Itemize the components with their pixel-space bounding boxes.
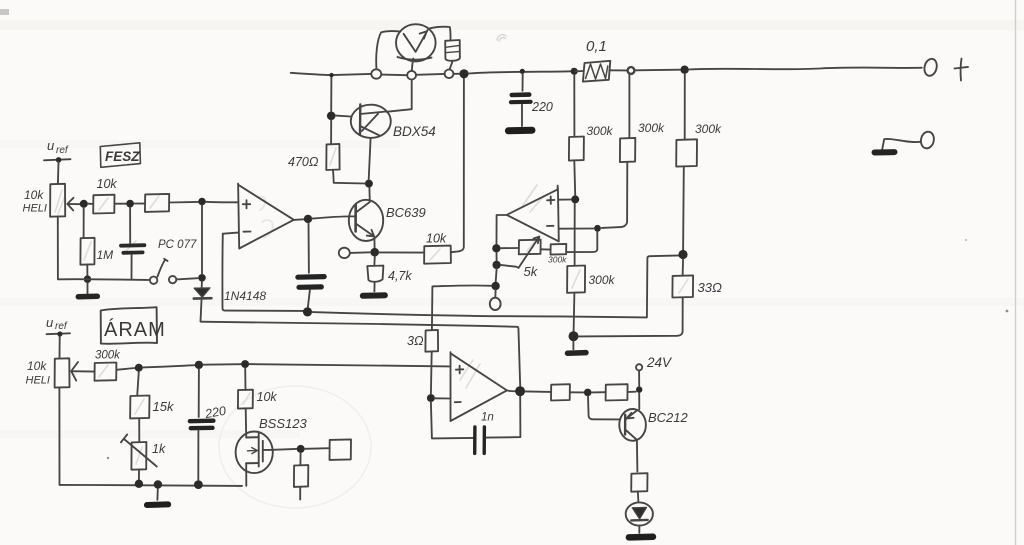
node ground mid <box>569 331 579 341</box>
wire U3 out to R17 <box>525 390 551 393</box>
wire U_ref to pot R1 <box>57 162 60 184</box>
node Q3 emitter <box>370 248 379 257</box>
wire P1 to top transistor <box>376 31 400 69</box>
transistor Q1 (top) body <box>396 24 436 61</box>
wire down to 300k (4th) <box>574 203 576 265</box>
wire R9 to op-amp U2 plus node <box>573 160 576 195</box>
terminal plus output <box>923 58 939 78</box>
faint pencil smudge around BSS123 <box>219 386 371 508</box>
node U2 minus <box>594 225 601 232</box>
box J1 <box>330 439 352 460</box>
connector circle P1 <box>371 69 381 78</box>
tag box FESZ <box>100 143 140 168</box>
rail left segment with small node <box>291 73 371 75</box>
resistor R19 <box>631 473 647 492</box>
resistor R7 10k sense <box>424 246 451 264</box>
wire node470 to Q2 base <box>336 115 351 118</box>
op-amp U3 <box>451 352 507 421</box>
resistor R21 300k bottom <box>95 363 117 381</box>
wire R2 to node B1 <box>115 203 126 205</box>
svg-text:PC 077: PC 077 <box>158 239 197 251</box>
label BC639 <box>386 205 426 220</box>
wire output node down to C2 <box>308 223 310 273</box>
connector node open <box>628 67 635 74</box>
open terminal at Q3 emitter <box>339 248 350 258</box>
node rail main <box>459 69 468 78</box>
svg-text:BSS123: BSS123 <box>259 416 307 431</box>
node 33R top <box>678 250 687 259</box>
node U2 out to 5k top <box>492 244 500 252</box>
svg-text:FESZ: FESZ <box>105 149 140 164</box>
svg-text:300k: 300k <box>548 255 567 265</box>
wire switch to node D1 <box>176 278 197 279</box>
wire R6 bottom to Q3 collector node <box>333 170 365 184</box>
resistor R24 10k gate <box>244 368 246 390</box>
terminal 2 with ground <box>919 130 935 149</box>
svg-text:300k: 300k <box>587 124 614 138</box>
switch PC077 contact circles <box>150 277 157 284</box>
node to 5k wiper <box>496 253 498 261</box>
wire node C1 down to switch node <box>201 205 203 274</box>
ground G3 <box>156 489 158 500</box>
node C3 top <box>520 69 525 74</box>
bottom rail <box>58 388 60 485</box>
node U3 minus <box>427 394 435 402</box>
node output U1 <box>304 215 312 223</box>
svg-text:15k: 15k <box>153 399 175 414</box>
tag box ARAM <box>101 307 157 344</box>
wire node base drive down right to Q5 base <box>588 396 619 419</box>
wire Q5 collector down <box>636 441 639 472</box>
ground G1 <box>87 283 89 294</box>
potentiometer R20 10k HELI bottom <box>55 358 70 387</box>
resistor R8 4.7k <box>373 257 376 266</box>
svg-text:1n: 1n <box>481 412 494 424</box>
feedback wire U1 <box>222 234 303 311</box>
switch lever <box>158 259 168 277</box>
node 470R top <box>327 112 336 121</box>
wire node A1 to R2 <box>88 203 93 205</box>
Q3 emitter with arrow <box>356 224 375 237</box>
node shunt left <box>571 68 578 75</box>
resistor R9 300k (1st) <box>573 75 575 137</box>
svg-text:0,1: 0,1 <box>586 38 607 55</box>
bottom wire pot R1 to switch <box>57 217 59 279</box>
wire 1M to ground node <box>86 265 88 276</box>
fuse F1 striped box <box>445 40 460 61</box>
rail segment P2 to P3 <box>416 73 444 76</box>
terminal 24V <box>636 364 642 370</box>
label 1N4148 <box>224 289 266 303</box>
potentiometer R1 10k HELI body <box>50 184 65 217</box>
wire R3 to node C1 <box>169 201 198 204</box>
svg-text:BC212: BC212 <box>648 410 689 425</box>
transistor Q5 BC212 <box>619 409 646 441</box>
svg-text:u: u <box>47 138 54 153</box>
capacitor C3 220 <box>522 74 524 91</box>
Q1 base chord <box>398 57 432 60</box>
resistor R18 <box>606 384 628 400</box>
label 10k (R2) <box>97 177 118 191</box>
node bottom 2 <box>154 480 162 488</box>
node bottom 3 <box>194 480 203 489</box>
faint pencil slashes in boxes <box>55 148 688 464</box>
svg-text:10k: 10k <box>24 188 44 202</box>
wire F1 to connector P3 <box>450 62 453 69</box>
node NB1 <box>135 364 143 372</box>
resistor R3 (unlabeled) <box>145 194 169 212</box>
capacitor C4 220 bottom <box>198 369 200 417</box>
transistor Q3 BC639 body <box>349 200 383 241</box>
label U_ref (top) <box>47 138 69 156</box>
node ground G1 <box>84 275 92 283</box>
wire U2 output <box>497 215 507 244</box>
svg-text:ref: ref <box>55 321 68 332</box>
wire node to U3 minus input <box>435 397 450 399</box>
svg-text:10k: 10k <box>257 390 278 404</box>
ground under LED <box>629 534 653 541</box>
diode D1 1N4148 <box>201 282 203 288</box>
open terminal below <box>494 290 496 298</box>
resistor R11 300k (3rd) <box>684 74 686 140</box>
wire node down to C5 feedback <box>431 402 473 438</box>
capacitor C5 1n vertical plates <box>473 427 477 454</box>
svg-text:ref: ref <box>56 145 69 156</box>
svg-text:33Ω: 33Ω <box>698 280 722 295</box>
resistor R16 3R vertical <box>431 287 434 331</box>
wire U2 plus input right <box>559 199 571 201</box>
svg-text:220: 220 <box>531 100 553 114</box>
wire R12 to ground node <box>573 293 576 332</box>
wire rail to node470 <box>330 77 332 111</box>
LED D2 <box>626 502 653 525</box>
faint pencil arc top middle <box>497 35 506 41</box>
wire U1 output to Q3 base <box>312 216 355 218</box>
label 10k HELI (top pot) <box>23 188 47 215</box>
label BDX54 <box>393 124 436 139</box>
output wire U1 to node <box>294 218 304 221</box>
ground under R8 <box>373 283 375 292</box>
node gate <box>297 445 305 453</box>
Q2 collector line <box>360 112 386 115</box>
resistor R25 below gate node <box>299 453 301 465</box>
svg-text:1M: 1M <box>97 248 114 262</box>
svg-text:24V: 24V <box>646 355 673 370</box>
Q3 collector <box>356 188 370 213</box>
svg-text:10k: 10k <box>426 232 447 246</box>
Q1 internal lines with arrow <box>404 30 428 52</box>
svg-text:300k: 300k <box>95 350 121 362</box>
wire node3 left to 3R resistor <box>433 284 492 287</box>
node bottom 1 <box>135 480 143 488</box>
node 300k r3 top <box>680 66 688 74</box>
resistor R10 300k (2nd) <box>628 74 630 138</box>
node 24V <box>636 386 642 392</box>
svg-text:300k: 300k <box>638 121 665 135</box>
label 1M <box>97 248 114 262</box>
node NB2 <box>195 361 203 369</box>
wire line A to 33R top <box>312 255 681 317</box>
svg-text:1k: 1k <box>152 442 166 456</box>
wire Q3 emitter to R7 10k <box>379 251 424 253</box>
wire 33R bottom to ground node <box>579 297 683 336</box>
svg-text:HELI: HELI <box>23 203 47 215</box>
wire U2 minus input right <box>559 228 594 230</box>
svg-text:ÁRAM: ÁRAM <box>104 318 166 341</box>
rail to U3 plus input <box>249 364 450 366</box>
Q2 base bar <box>359 105 362 135</box>
label U_ref (bottom) <box>46 315 68 332</box>
wire R10 jog to minus node <box>602 162 628 228</box>
transistor Q2 BDX54 body <box>351 105 391 138</box>
rail segment P1 to P2 <box>381 74 407 77</box>
shunt resistor 0,1 <box>583 61 610 82</box>
resistor R17 <box>551 384 570 400</box>
capacitor C1 vertical under node B1 <box>129 208 131 243</box>
resistor R2 10k <box>93 195 114 214</box>
Q2 emitter line with cross stroke <box>360 114 379 136</box>
wire C5 to U3 output vertical <box>486 396 520 437</box>
resistor R4 1M vertical <box>83 208 85 238</box>
potentiometer R14 5k <box>519 240 541 255</box>
wire Q2 collector up to connector circle <box>386 80 412 112</box>
resistor R12 300k (4th) <box>567 266 585 293</box>
rail bottom section to NB2 <box>143 365 195 367</box>
node to 3R line <box>495 269 498 282</box>
svg-text:300k: 300k <box>695 122 722 136</box>
op-amp U2 (points left) <box>507 186 559 242</box>
svg-text:BDX54: BDX54 <box>393 124 436 139</box>
svg-text:5k: 5k <box>524 264 539 279</box>
resistor R15 300R small <box>551 244 567 255</box>
svg-text:470Ω: 470Ω <box>288 155 319 169</box>
page edge line right <box>1015 0 1017 545</box>
rail to plus terminal <box>689 68 922 70</box>
wire node B1 to R3 <box>134 203 145 205</box>
op-amp U1 <box>238 184 294 249</box>
ground G2 <box>572 341 574 349</box>
wire Q2 emitter down to node <box>369 138 371 180</box>
wire R7 up to rail node <box>451 79 464 253</box>
node feedback bottom <box>303 307 312 316</box>
svg-text:4,7k: 4,7k <box>388 269 412 283</box>
wire minus node down to 300R <box>566 232 597 252</box>
node Q3 collector top <box>365 180 373 188</box>
wire node C1 to op-amp U1 plus input <box>206 201 238 204</box>
node C1 <box>198 198 206 206</box>
resistor R6 470 <box>330 120 332 144</box>
wire Q1 right to fuse F1 <box>430 27 451 41</box>
trimmer R23 1k <box>131 442 146 470</box>
svg-text:1N4148: 1N4148 <box>224 289 266 303</box>
svg-text:300k: 300k <box>589 273 616 287</box>
wire minus input to feedback <box>223 233 238 234</box>
node A1 <box>80 200 88 208</box>
node U_ref bottom tick <box>47 332 71 335</box>
wire Q5 emitter up <box>638 393 640 409</box>
svg-text:10k: 10k <box>97 177 118 191</box>
potentiometer R1 wiper arrow <box>67 198 81 211</box>
MOSFET Q4 BSS123 <box>236 432 273 474</box>
node U3 output <box>507 389 516 392</box>
wire node to box J1 <box>305 447 330 450</box>
rail to 220 node and shunt <box>469 71 571 73</box>
node U2 plus <box>571 195 579 203</box>
node switch right <box>198 274 206 282</box>
wire line B diode to op-amp U3 output <box>201 322 521 386</box>
Q3 base bar <box>354 205 357 232</box>
plus sign <box>955 59 969 81</box>
label PC 077 <box>158 239 197 251</box>
connector circle P3 <box>445 70 454 79</box>
node U_ref top with tick <box>44 159 71 160</box>
svg-text:3Ω: 3Ω <box>407 334 424 348</box>
resistor R13 33R <box>682 259 685 276</box>
svg-text:10k: 10k <box>27 359 47 373</box>
node B1 <box>126 200 134 208</box>
connector circle P2 <box>407 71 416 80</box>
node base drive <box>584 389 592 397</box>
svg-text:HELI: HELI <box>26 375 50 387</box>
Q1 base stub down <box>412 59 414 71</box>
faint smudge inside op-amp1 <box>258 197 273 238</box>
resistor R22 15k <box>137 372 139 396</box>
wire Q4 gate to node <box>263 449 296 450</box>
svg-text:u: u <box>46 315 53 330</box>
svg-text:BC639: BC639 <box>386 205 426 220</box>
capacitor C2 under U1 output <box>298 274 324 280</box>
node NB3 <box>241 360 249 368</box>
